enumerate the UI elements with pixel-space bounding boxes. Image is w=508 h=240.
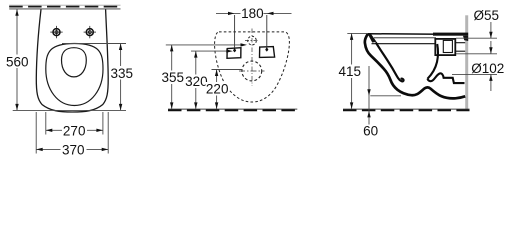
svg-text:320: 320 (185, 74, 208, 89)
wall (465, 15, 468, 111)
dim 220 (206, 70, 243, 109)
dim 270 (46, 112, 103, 138)
fixing hole left (trapezoid) (227, 48, 241, 59)
bowl back wall (427, 44, 438, 79)
bowl interior line with hook (376, 42, 404, 81)
svg-text:Ø102: Ø102 (471, 61, 504, 76)
trap weir and outlet step (427, 73, 464, 83)
svg-text:355: 355 (162, 70, 185, 85)
dim 370 (36, 112, 108, 157)
dim 180 (216, 6, 292, 53)
bowl opening (62, 48, 87, 77)
dim 60 (363, 66, 401, 139)
svg-text:370: 370 (62, 142, 85, 157)
dim 560 (5, 9, 30, 110)
dim diameter 102 (452, 61, 504, 91)
flush connection box (435, 39, 455, 55)
svg-text:335: 335 (111, 66, 134, 81)
dim 415 (338, 33, 368, 109)
rim (368, 33, 441, 36)
svg-text:220: 220 (206, 82, 229, 97)
svg-text:180: 180 (241, 6, 264, 21)
wall (9, 5, 120, 9)
outlet (big dashed circle) (239, 61, 265, 81)
supply connection (small dashed circle) (245, 36, 259, 45)
dashed body outline (215, 32, 290, 102)
fixing hole right (trapezoid) (260, 47, 275, 58)
bracket at wall (433, 33, 468, 36)
svg-text:270: 270 (63, 123, 86, 138)
floor middle (168, 109, 297, 110)
dim 320 (185, 49, 233, 109)
svg-text:Ø55: Ø55 (474, 8, 500, 23)
svg-text:60: 60 (363, 124, 378, 139)
wc body outline (36, 9, 108, 112)
center line (251, 29, 253, 87)
dim 335 (62, 44, 134, 111)
dim 355 (161, 43, 247, 109)
seat outline (46, 44, 103, 106)
svg-text:415: 415 (339, 64, 362, 79)
bowl outer profile (365, 34, 465, 98)
floor right (343, 109, 470, 110)
front extension line (13, 109, 126, 111)
svg-text:560: 560 (6, 55, 29, 70)
fixing hole left (50, 26, 62, 38)
fixing hole right (84, 26, 96, 38)
dim diameter 55 (456, 8, 499, 54)
